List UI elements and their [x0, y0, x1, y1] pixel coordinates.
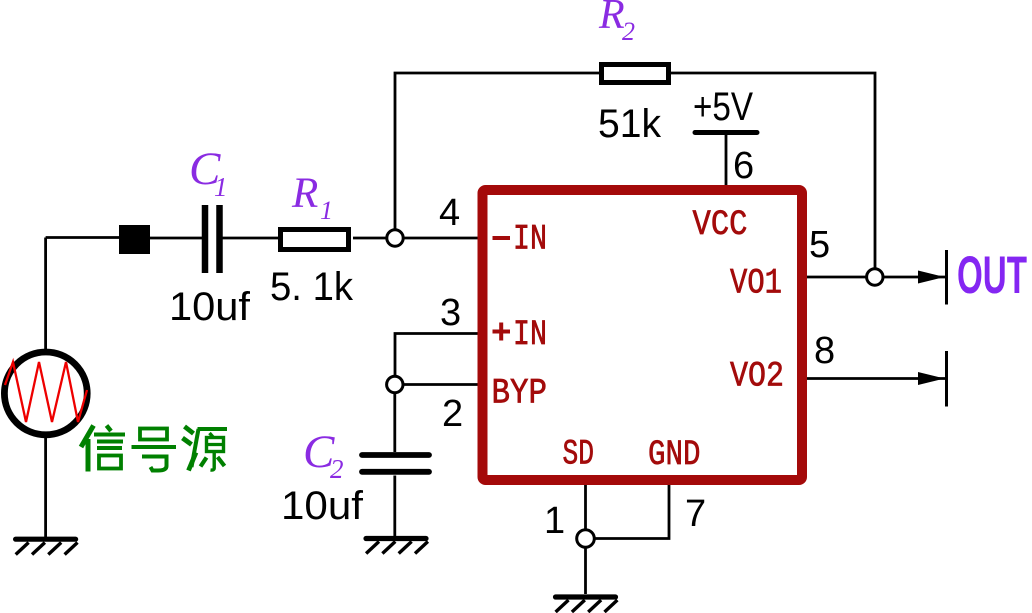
svg-text:51k: 51k — [598, 102, 662, 146]
svg-text:5. 1k: 5. 1k — [270, 265, 354, 309]
svg-text:+5V: +5V — [693, 85, 753, 129]
svg-text:3: 3 — [440, 292, 461, 334]
svg-text:4: 4 — [439, 192, 460, 234]
svg-text:2: 2 — [442, 393, 463, 435]
svg-text:VO1: VO1 — [730, 263, 782, 304]
svg-text:1: 1 — [320, 196, 333, 225]
svg-text:GND: GND — [648, 434, 701, 475]
svg-text:R: R — [598, 0, 625, 38]
svg-text:10uf: 10uf — [281, 484, 364, 528]
svg-text:R: R — [291, 170, 318, 217]
svg-text:5: 5 — [809, 224, 830, 266]
svg-text:10uf: 10uf — [169, 285, 251, 329]
svg-text:1: 1 — [544, 500, 565, 542]
svg-text:1: 1 — [214, 172, 228, 202]
svg-text:OUT: OUT — [957, 246, 1027, 305]
svg-text:VO2: VO2 — [730, 356, 784, 397]
svg-text:IN: IN — [513, 314, 547, 355]
svg-text:2: 2 — [622, 17, 635, 46]
svg-text:IN: IN — [513, 219, 547, 260]
svg-text:7: 7 — [685, 493, 706, 535]
svg-text:6: 6 — [733, 145, 754, 187]
svg-text:2: 2 — [330, 454, 344, 484]
svg-text:SD: SD — [563, 434, 595, 475]
svg-text:8: 8 — [814, 330, 835, 372]
svg-text:BYP: BYP — [492, 373, 548, 414]
svg-text:VCC: VCC — [693, 204, 748, 245]
